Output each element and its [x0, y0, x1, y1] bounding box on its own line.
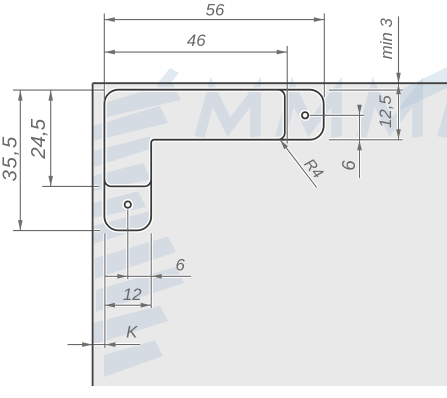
- casing dim K line: [68, 343, 140, 346]
- hole right: [302, 112, 308, 118]
- ext line varm right bottom: [150, 233, 152, 308]
- casing ext line bracket top right: [329, 88, 403, 91]
- casing ext line crease bottom left: [42, 185, 99, 188]
- watermark logo bands: [93, 67, 447, 377]
- leader R4: [280, 140, 317, 188]
- watermark band b1: [107, 83, 181, 118]
- casing ext line bracket bottom left: [13, 229, 100, 232]
- bracket L-shaped body: [104, 90, 323, 231]
- ext line right 56: [323, 14, 325, 98]
- arrow R4: [280, 140, 288, 150]
- svg-text:6: 6: [338, 160, 359, 171]
- watermark band b4b: [93, 191, 146, 218]
- right crease line: [278, 90, 285, 140]
- casing ext line right 46: [286, 84, 289, 144]
- dimension texts: [0, 0, 396, 341]
- casing dim 12,5 line: [397, 84, 400, 140]
- dim 12 line: [104, 304, 151, 306]
- dim 46 line: [104, 51, 287, 53]
- ext line bracket top right: [329, 89, 403, 91]
- arrow 56 left: [104, 17, 115, 22]
- ext line crease bottom left: [42, 185, 99, 187]
- casing dim 6 right line: [358, 105, 361, 178]
- svg-text:46: 46: [187, 31, 206, 50]
- dim min3 line: [398, 17, 400, 84]
- casing dim 12 line: [104, 304, 151, 307]
- casing ext line hole bottom: [126, 210, 129, 280]
- svg-text:24,5: 24,5: [27, 118, 50, 159]
- watermark band b8: [93, 306, 168, 345]
- dim 6 right line: [359, 105, 361, 178]
- dim 56 line: [104, 19, 324, 21]
- watermark letter M3: [361, 92, 423, 137]
- arrow 6 right top (outside, pointing down): [357, 105, 362, 116]
- bracket outline casing: [104, 90, 323, 231]
- arrow 46 right: [277, 50, 288, 55]
- panel top edge: [93, 82, 447, 84]
- dim K line: [68, 344, 140, 346]
- arrow 12,5 up: [396, 84, 401, 95]
- ext line bracket top left: [13, 89, 104, 91]
- watermark band b4: [93, 163, 151, 191]
- watermark band b3: [94, 136, 150, 167]
- dimension lines: [13, 14, 403, 349]
- bottom crease line: [104, 179, 151, 186]
- svg-text:K: K: [126, 323, 138, 342]
- white casings for lines crossing the panel: [13, 84, 403, 349]
- arrow min3 down: [396, 73, 401, 84]
- dim 6 bottom line: [105, 275, 191, 277]
- arrow 12 right: [141, 303, 152, 308]
- watermark band b2: [93, 106, 168, 141]
- ext line right 46: [286, 46, 288, 144]
- arrow 24,5 bottom: [48, 176, 53, 187]
- arrow 56 right: [314, 17, 325, 22]
- svg-text:12,5: 12,5: [376, 95, 395, 128]
- watermark band b1 notch: [156, 68, 179, 90]
- ext line arm bottom right: [329, 139, 403, 141]
- watermark letter M1: [199, 92, 261, 137]
- bottom crease casing: [104, 179, 151, 186]
- casing dim 6 bottom line: [105, 275, 191, 278]
- svg-text:min 3: min 3: [377, 18, 396, 60]
- bracket body casing: [104, 90, 323, 231]
- casing ext line right 56: [323, 84, 326, 98]
- svg-text:6: 6: [176, 256, 186, 275]
- dim 35,5 line: [19, 90, 21, 231]
- ext line left 56/46: [103, 14, 105, 102]
- arrow 6 bottom left (outside, pointing right): [117, 274, 128, 279]
- hole bottom (halo): [122, 199, 133, 210]
- dim 12,5 line: [398, 84, 400, 140]
- svg-text:12: 12: [123, 285, 142, 304]
- arrow 35,5 top: [18, 90, 23, 101]
- arrow 24,5 top: [48, 90, 53, 101]
- watermark band b9: [104, 340, 163, 377]
- casing ext line arm bottom right: [329, 138, 403, 141]
- ext line hole right: [310, 114, 364, 116]
- panel left edge: [92, 83, 94, 386]
- hole right (halo): [300, 110, 311, 121]
- arrow 6 right bottom (outside, pointing up): [357, 140, 362, 151]
- casing leader R4: [280, 140, 317, 188]
- ext line bracket bottom left: [13, 230, 100, 232]
- panel (board): [93, 83, 447, 386]
- arrow K right (outside, pointing left): [105, 342, 116, 347]
- arrow 35,5 bottom: [18, 220, 23, 231]
- watermark band b7: [96, 267, 184, 312]
- watermark letters МДМ: [199, 92, 447, 137]
- ext line hole bottom: [127, 210, 129, 280]
- casing ext line left 56/46: [103, 84, 106, 102]
- casing ext line bracket left bottom: [103, 233, 106, 348]
- casing ext line varm right bottom: [150, 233, 153, 308]
- right crease casing: [278, 90, 285, 140]
- arrow 12,5 down: [396, 129, 401, 140]
- svg-text:56: 56: [206, 0, 225, 19]
- arrow 12 left: [104, 303, 115, 308]
- watermark letter M2: [280, 92, 342, 137]
- watermark band b6: [95, 237, 176, 280]
- hole bottom: [125, 201, 131, 207]
- ext line bracket left bottom: [104, 233, 106, 348]
- casing ext line hole right: [310, 114, 364, 117]
- watermark band b5: [93, 211, 150, 244]
- casing ext line bracket top left: [13, 88, 104, 91]
- watermark band right top: [400, 67, 447, 110]
- arrowheads: [18, 17, 401, 347]
- dim 24,5 line: [50, 90, 52, 186]
- arrow 6 bottom right (outside, pointing left): [151, 274, 162, 279]
- arrow K left (outside, pointing right): [82, 342, 93, 347]
- svg-text:35,5: 35,5: [0, 135, 22, 181]
- arrow 46 left: [104, 50, 115, 55]
- watermark letter M4 (clipped): [442, 92, 447, 137]
